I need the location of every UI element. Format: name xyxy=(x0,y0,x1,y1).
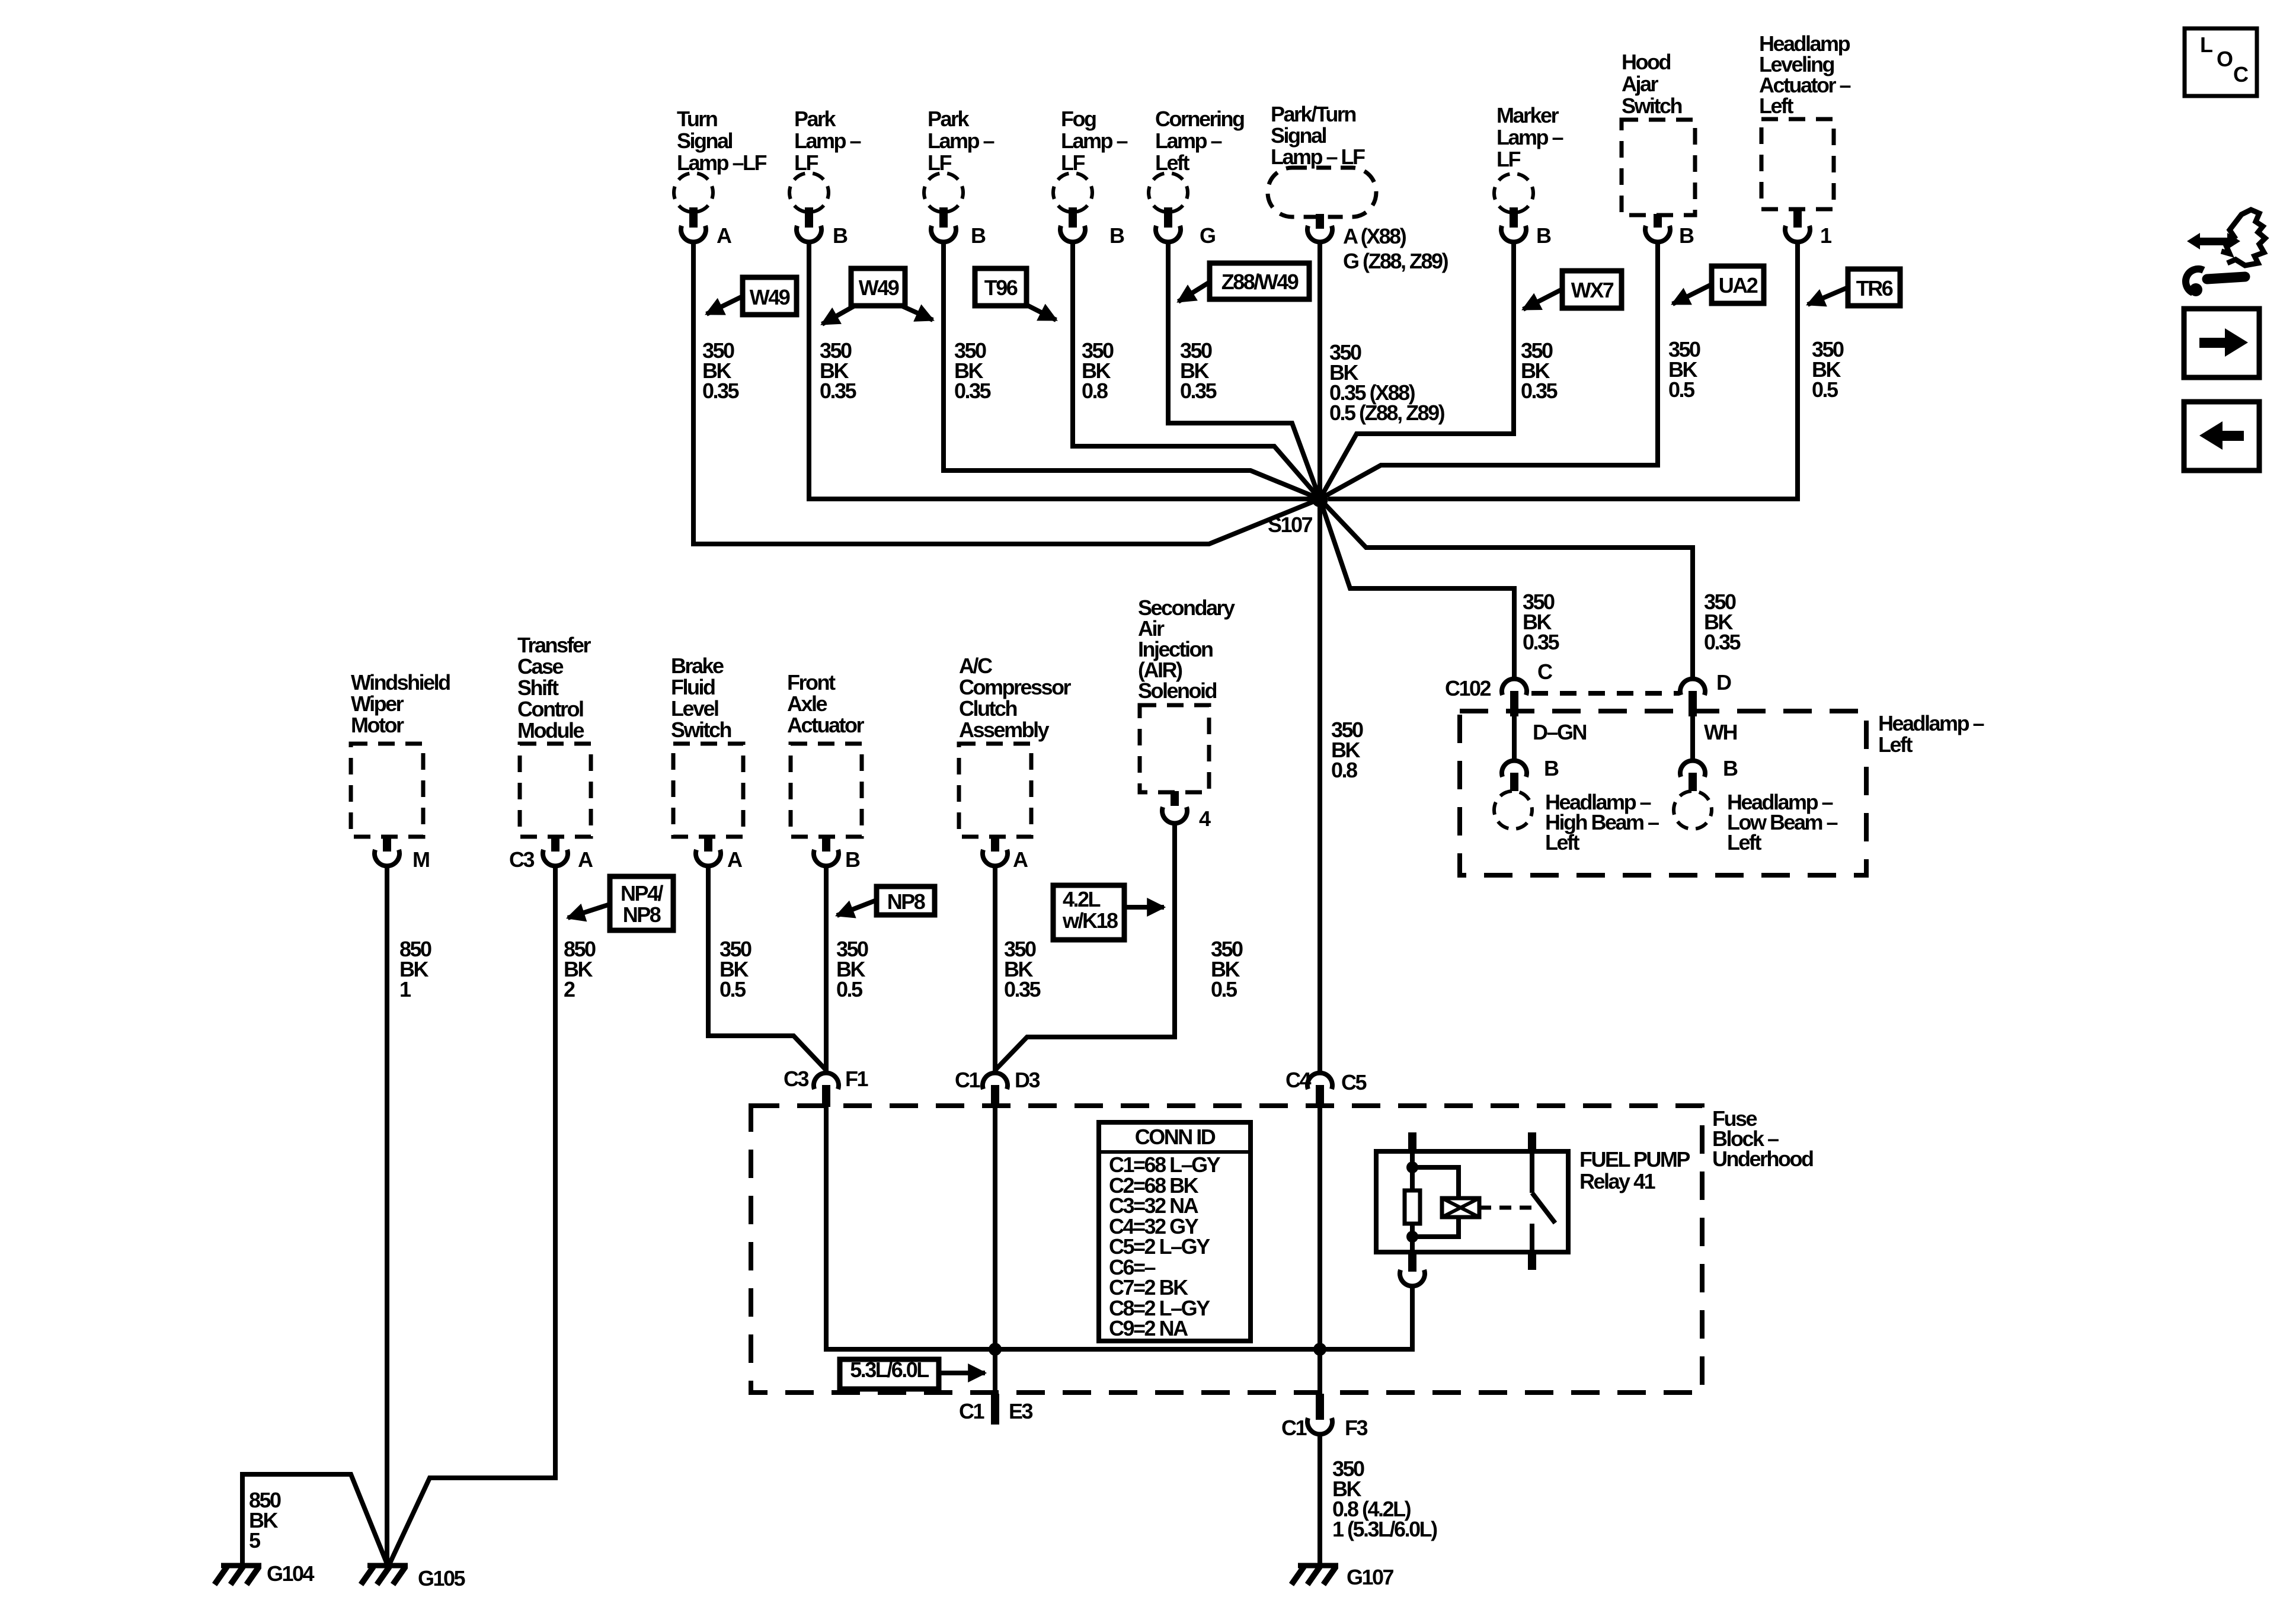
svg-text:C: C xyxy=(1537,660,1553,684)
svg-text:w/K18: w/K18 xyxy=(1062,908,1118,933)
svg-text:LF: LF xyxy=(1496,147,1520,171)
svg-text:WX7: WX7 xyxy=(1571,278,1614,302)
wire 350 BK 0.5 from front axle actuator to connector F1 xyxy=(824,866,829,1071)
svg-text:D–GN: D–GN xyxy=(1533,720,1587,744)
svg-text:Lamp –: Lamp – xyxy=(1496,125,1563,149)
svg-text:Park: Park xyxy=(928,107,970,131)
svg-text:G: G xyxy=(1200,223,1215,248)
svg-text:NP8: NP8 xyxy=(623,902,661,927)
relay coil branch xyxy=(1412,1167,1459,1198)
svg-text:0.35: 0.35 xyxy=(1523,630,1560,654)
svg-text:Transfer: Transfer xyxy=(517,633,591,657)
wire from Headlamp Leveling Actuator pin 1 to splice S107 xyxy=(1328,242,1798,499)
option box W49 (second) xyxy=(851,268,905,306)
svg-text:G104: G104 xyxy=(267,1561,315,1586)
connector C102 dashed interface line xyxy=(1531,691,1678,696)
lamp E5 Park/Turn Signal Lamp LF (oval) xyxy=(1268,102,1448,273)
wire 850 BK 1 from wiper motor to ground G105 xyxy=(385,866,389,1567)
option box T96 xyxy=(975,268,1027,306)
svg-text:LF: LF xyxy=(928,151,951,175)
svg-text:Lamp –: Lamp – xyxy=(928,129,994,153)
lamp E2 Park Lamp LF (second) xyxy=(924,107,994,248)
relay pin top-right xyxy=(1528,1132,1536,1151)
svg-text:C9=2 NA: C9=2 NA xyxy=(1109,1316,1188,1340)
fuse block underhood dashed box xyxy=(751,1106,1702,1393)
lamp E3 Fog Lamp LF xyxy=(1053,107,1128,248)
lamp Headlamp High Beam Left xyxy=(1494,791,1532,829)
svg-text:Case: Case xyxy=(517,654,564,678)
svg-text:Lamp –LF: Lamp –LF xyxy=(677,151,767,175)
svg-text:0.35: 0.35 xyxy=(1521,379,1558,403)
svg-text:Axle: Axle xyxy=(787,692,827,716)
svg-text:0.35: 0.35 xyxy=(1180,379,1217,403)
lamp E6 Marker Lamp LF xyxy=(1494,103,1563,248)
svg-text:M: M xyxy=(412,847,429,872)
svg-text:O: O xyxy=(2217,47,2233,71)
svg-text:0.35: 0.35 xyxy=(1004,977,1041,1001)
actuator M1 Headlamp Leveling Actuator Left xyxy=(1759,31,1851,248)
ground G104 xyxy=(221,1563,261,1569)
wire from Fog Lamp pin B to splice S107 xyxy=(1073,242,1320,499)
svg-text:Solenoid: Solenoid xyxy=(1138,678,1217,703)
svg-text:B: B xyxy=(1544,756,1559,780)
svg-text:B: B xyxy=(845,847,860,872)
svg-text:4: 4 xyxy=(1199,806,1211,831)
lamp Headlamp Low Beam Left xyxy=(1674,791,1712,829)
wire from Cornering Lamp pin G to splice S107 xyxy=(1168,242,1320,499)
svg-text:G105: G105 xyxy=(418,1566,466,1590)
junction at D3 wire and relay feed wire xyxy=(989,1343,1002,1356)
lamp E1 Park Lamp LF (first) xyxy=(789,107,861,248)
wire from S107 to C102 pin C xyxy=(1320,499,1514,680)
wire 350 BK 0.5 from brake fluid switch to connector F1 xyxy=(708,866,826,1070)
wire 350 BK from F3 to ground G107 xyxy=(1318,1435,1322,1567)
svg-text:0.8: 0.8 xyxy=(1331,758,1357,782)
svg-text:1 (5.3L/6.0L): 1 (5.3L/6.0L) xyxy=(1332,1517,1437,1541)
connector C102 pin C xyxy=(1502,679,1527,695)
svg-text:D: D xyxy=(1716,670,1731,694)
svg-text:Park/Turn: Park/Turn xyxy=(1271,102,1355,126)
svg-text:0.5: 0.5 xyxy=(720,977,746,1001)
svg-text:Turn: Turn xyxy=(677,107,717,131)
svg-text:0.5: 0.5 xyxy=(1812,377,1838,402)
svg-text:Shift: Shift xyxy=(517,676,559,700)
svg-text:NP8: NP8 xyxy=(887,889,925,914)
svg-text:C1: C1 xyxy=(959,1399,984,1423)
LOC legend box xyxy=(2185,28,2257,96)
ground G107 xyxy=(1298,1563,1338,1569)
ground G105 xyxy=(367,1563,408,1569)
svg-text:5: 5 xyxy=(249,1528,261,1553)
svg-text:B: B xyxy=(833,223,848,248)
switch S2 Brake Fluid Level Switch xyxy=(671,654,743,872)
wire from first Park Lamp pin B to splice S107 xyxy=(809,242,1320,499)
svg-text:Relay 41: Relay 41 xyxy=(1579,1169,1656,1193)
splice S107 xyxy=(1312,491,1328,507)
switch S1 Hood Ajar Switch xyxy=(1622,50,1695,248)
wire from second Park Lamp pin B to splice S107 xyxy=(944,242,1320,499)
svg-text:LF: LF xyxy=(794,151,818,175)
module U1 Transfer Case Shift Control Module xyxy=(509,633,593,872)
svg-text:B: B xyxy=(1536,223,1551,248)
svg-text:2: 2 xyxy=(564,977,575,1001)
svg-text:Wiper: Wiper xyxy=(351,692,404,716)
svg-text:S107: S107 xyxy=(1268,513,1313,537)
svg-text:W49: W49 xyxy=(859,276,899,300)
wire WH to low beam xyxy=(1690,716,1695,760)
svg-text:C5: C5 xyxy=(1341,1070,1367,1094)
svg-text:C3: C3 xyxy=(509,847,534,872)
svg-text:Marker: Marker xyxy=(1496,103,1559,127)
svg-text:0.5: 0.5 xyxy=(1211,977,1237,1001)
svg-text:L: L xyxy=(2200,33,2212,57)
svg-text:Left: Left xyxy=(1545,830,1580,854)
svg-text:Signal: Signal xyxy=(677,129,733,153)
back arrow box xyxy=(2184,402,2259,470)
svg-text:B: B xyxy=(1109,223,1124,248)
svg-text:Control: Control xyxy=(517,697,583,721)
svg-text:Module: Module xyxy=(517,718,584,742)
svg-text:C4: C4 xyxy=(1285,1068,1311,1092)
option box UA2 xyxy=(1712,266,1764,303)
relay internal wire to resistor xyxy=(1410,1151,1415,1190)
svg-text:1: 1 xyxy=(1820,223,1832,248)
svg-text:F3: F3 xyxy=(1345,1416,1367,1440)
svg-text:C102: C102 xyxy=(1445,676,1491,700)
svg-text:Actuator: Actuator xyxy=(787,713,864,737)
lamp L1 Turn Signal Lamp LF xyxy=(674,107,767,248)
svg-text:Switch: Switch xyxy=(1622,94,1682,118)
solenoid L2 Secondary Air Injection (AIR) Solenoid xyxy=(1138,596,1235,831)
svg-text:Cornering: Cornering xyxy=(1155,107,1244,131)
svg-text:0.8: 0.8 xyxy=(1082,379,1108,403)
relay switch xyxy=(1530,1151,1534,1193)
svg-text:Hood: Hood xyxy=(1622,50,1670,74)
svg-text:E3: E3 xyxy=(1009,1399,1033,1423)
svg-text:FUEL PUMP: FUEL PUMP xyxy=(1579,1147,1690,1172)
relay FUEL PUMP Relay 41 xyxy=(1376,1132,1690,1286)
wire from S107 to C102 pin D xyxy=(1320,499,1693,680)
svg-text:B: B xyxy=(1723,756,1738,780)
svg-text:Motor: Motor xyxy=(351,713,404,737)
svg-text:Windshield: Windshield xyxy=(351,670,450,694)
svg-text:C: C xyxy=(2233,62,2249,87)
svg-text:Ajar: Ajar xyxy=(1622,72,1659,96)
svg-text:G107: G107 xyxy=(1347,1565,1394,1589)
svg-text:Left: Left xyxy=(1878,732,1913,757)
svg-text:Front: Front xyxy=(787,670,836,694)
option box NP8 xyxy=(877,886,935,915)
svg-text:Assembly: Assembly xyxy=(959,718,1050,742)
wire 350 BK 0.35 from A/C compressor to connector D3 xyxy=(993,866,997,1073)
junction at main wire and relay feed wire xyxy=(1313,1343,1326,1356)
svg-text:B: B xyxy=(971,223,986,248)
svg-text:0.35: 0.35 xyxy=(954,379,992,403)
svg-text:A: A xyxy=(578,847,593,872)
svg-text:Brake: Brake xyxy=(671,654,724,678)
svg-text:D3: D3 xyxy=(1015,1068,1040,1092)
motor M2 Windshield Wiper Motor xyxy=(351,670,450,872)
svg-text:Lamp – LF: Lamp – LF xyxy=(1271,145,1365,169)
wire from C4/C5 down to connector F3 xyxy=(1318,1107,1322,1396)
svg-text:Lamp –: Lamp – xyxy=(1155,129,1222,153)
connector C3/F1 at fuse block xyxy=(814,1073,839,1089)
svg-text:Underhood: Underhood xyxy=(1712,1147,1813,1171)
svg-text:A: A xyxy=(1013,847,1028,872)
option box 4.2L w/K18 xyxy=(1053,885,1124,940)
wire from Turn Signal Lamp pin A to splice S107 xyxy=(693,242,1320,544)
wire from Marker Lamp pin B to splice S107 xyxy=(1320,242,1514,499)
option box WX7 xyxy=(1562,271,1622,308)
svg-text:G (Z88, Z89): G (Z88, Z89) xyxy=(1343,249,1448,273)
wire from Hood Ajar Switch pin B to splice S107 xyxy=(1320,242,1658,499)
wire 850 BK 5 jumper from G104 to G105 xyxy=(242,1474,388,1567)
svg-text:0.5: 0.5 xyxy=(1668,377,1695,402)
svg-text:Left: Left xyxy=(1759,94,1794,118)
wire D-GN to high beam xyxy=(1512,716,1517,760)
relay coil-to-switch dashed link xyxy=(1479,1206,1532,1210)
svg-text:TR6: TR6 xyxy=(1856,276,1893,300)
svg-text:Park: Park xyxy=(794,107,837,131)
option box W49 (first) xyxy=(743,277,797,315)
svg-text:LF: LF xyxy=(1061,151,1085,175)
compressor clutch A/C Compressor Clutch Assembly xyxy=(959,654,1072,872)
svg-text:Fog: Fog xyxy=(1061,107,1096,131)
svg-text:Signal: Signal xyxy=(1271,123,1326,148)
connector C1/F3 below fuse block xyxy=(1316,1394,1324,1420)
option box Z88/W49 xyxy=(1210,263,1309,299)
svg-text:Clutch: Clutch xyxy=(959,696,1017,721)
svg-text:C1: C1 xyxy=(1281,1416,1307,1440)
svg-text:B: B xyxy=(1679,223,1694,248)
svg-text:Left: Left xyxy=(1727,830,1762,854)
svg-text:Level: Level xyxy=(671,696,718,721)
svg-text:Fluid: Fluid xyxy=(671,675,715,699)
option box TR6 xyxy=(1848,269,1900,306)
svg-text:A/C: A/C xyxy=(959,654,993,678)
connector C4/C5 at fuse block xyxy=(1307,1073,1332,1089)
relay resistor xyxy=(1405,1190,1420,1224)
svg-text:T96: T96 xyxy=(984,276,1018,300)
relay pin bottom-right xyxy=(1528,1252,1536,1270)
svg-text:Lamp –: Lamp – xyxy=(1061,129,1128,153)
connector C1/D3 at fuse block xyxy=(983,1073,1008,1089)
svg-text:Switch: Switch xyxy=(671,718,731,742)
svg-text:A (X88): A (X88) xyxy=(1343,224,1406,248)
wire 850 BK 2 from transfer case module to ground G105 xyxy=(388,866,555,1567)
svg-text:W49: W49 xyxy=(750,285,790,309)
svg-text:Lamp –: Lamp – xyxy=(794,129,861,153)
svg-text:0.35: 0.35 xyxy=(1704,630,1741,654)
lamp E4 Cornering Lamp Left xyxy=(1149,107,1244,248)
svg-text:Left: Left xyxy=(1155,151,1190,175)
svg-text:A: A xyxy=(717,223,732,248)
svg-text:F1: F1 xyxy=(845,1067,868,1091)
wire from Park/Turn Signal Lamp down through S107 to fuse block connector C4/C5 xyxy=(1318,242,1322,1073)
wire 350 BK 0.5 from AIR solenoid to connector D3 xyxy=(995,824,1175,1070)
svg-text:CONN ID: CONN ID xyxy=(1135,1125,1216,1149)
forward arrow box xyxy=(2184,309,2259,377)
svg-text:C1: C1 xyxy=(955,1068,980,1092)
connector pin B low beam xyxy=(1680,761,1705,777)
svg-text:1: 1 xyxy=(399,977,411,1001)
connector C1/E3 below fuse block xyxy=(991,1394,999,1425)
svg-text:NP4/: NP4/ xyxy=(621,881,664,905)
option box NP4/NP8 xyxy=(610,876,673,930)
wire from D3 down to connector E3 xyxy=(993,1107,997,1423)
actuator M3 Front Axle Actuator xyxy=(787,670,864,872)
relay pin bottom-left with cup xyxy=(1408,1252,1416,1272)
svg-text:A: A xyxy=(727,847,743,872)
wire inside fuse block from F1 to fuel pump relay xyxy=(826,1107,1412,1349)
svg-text:0.35: 0.35 xyxy=(702,379,740,403)
svg-text:C3: C3 xyxy=(784,1067,808,1091)
option box 5.3L/6.0L xyxy=(840,1359,939,1389)
relay pin top-left xyxy=(1408,1132,1416,1151)
svg-text:5.3L/6.0L: 5.3L/6.0L xyxy=(850,1358,929,1382)
svg-text:0.35: 0.35 xyxy=(820,379,857,403)
headlamp-left assembly dashed box xyxy=(1460,711,1866,875)
svg-text:4.2L: 4.2L xyxy=(1063,887,1101,911)
svg-text:UA2: UA2 xyxy=(1719,273,1758,297)
CONN ID table xyxy=(1099,1122,1251,1341)
svg-text:Headlamp –: Headlamp – xyxy=(1878,711,1984,735)
svg-text:Compressor: Compressor xyxy=(959,675,1072,699)
connector C102 pin D xyxy=(1680,679,1705,695)
svg-text:0.5: 0.5 xyxy=(836,977,863,1001)
svg-text:WH: WH xyxy=(1704,720,1737,744)
svg-text:Z88/W49: Z88/W49 xyxy=(1221,270,1299,294)
svg-text:0.5 (Z88, Z89): 0.5 (Z88, Z89) xyxy=(1329,401,1445,425)
wrench/arrows service icon xyxy=(2186,210,2265,296)
connector pin B high beam xyxy=(1502,761,1527,777)
